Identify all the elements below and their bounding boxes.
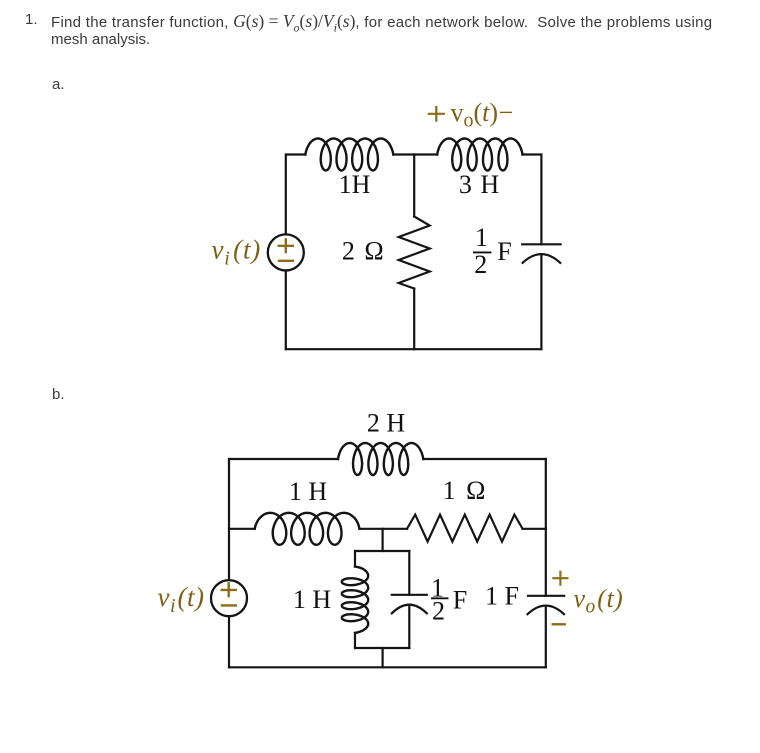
capacitor C3 1F top plate <box>528 595 564 597</box>
source V1 plus sign <box>279 240 293 253</box>
wire: circuit b bottom rail <box>229 666 546 668</box>
wire: circuit a right branch lower (C1 to bottom rail) <box>540 254 542 349</box>
resistor R1 2-ohm zigzag <box>399 217 430 289</box>
wire: parallel block top bar <box>355 550 409 552</box>
wire: circuit b middle rail between L4 and R2 (junction to block) <box>360 528 408 530</box>
svg-text:2 Ω: 2 Ω <box>342 236 385 265</box>
wire: circuit b left wire lower (source bottom to bottom rail) <box>228 618 230 668</box>
label 1/2 F for C2 (fraction) <box>431 573 467 625</box>
label minus polarity of v_o(t) <box>553 623 565 625</box>
svg-text:1 F: 1 F <box>485 582 519 611</box>
wire: circuit a bottom rail <box>286 348 542 350</box>
wire: circuit b left wire (top rail to source top) <box>228 459 230 580</box>
svg-text:1 H: 1 H <box>293 585 332 614</box>
svg-text:2: 2 <box>432 596 445 625</box>
wire: circuit b right wire (top rail through middle rail to C3) <box>545 459 547 596</box>
inductor L5 1H vertical coil <box>342 567 368 633</box>
svg-text:vo(t): vo(t) <box>574 584 624 618</box>
svg-text:vi(t): vi(t) <box>212 235 262 270</box>
svg-text:3 H: 3 H <box>459 170 500 199</box>
source V1 minus sign <box>279 260 293 262</box>
capacitor C2 1/2F top plate <box>392 594 427 596</box>
wire: circuit a top rail right corner down to C1 <box>523 155 542 245</box>
wire: circuit b top rail left of 2H <box>229 458 338 460</box>
wire: parallel block bottom bar <box>355 647 409 649</box>
svg-text:F: F <box>453 585 467 614</box>
wire: circuit a middle branch upper (top rail to R1) <box>413 155 415 217</box>
problem statement line 1 <box>25 11 38 28</box>
inductor L3 2H coil <box>338 443 423 475</box>
wire: block right branch upper <box>408 551 410 595</box>
wire: junction stub from middle rail down to parallel block <box>382 529 384 551</box>
wire: circuit a middle branch lower (R1 to bottom rail) <box>413 289 415 350</box>
svg-text:1H: 1H <box>339 170 371 199</box>
source V2 circle <box>211 580 247 616</box>
wire: circuit b right wire lower (C3 to bottom rail) <box>545 606 547 668</box>
label + v_o(t) - output voltage circuit a plus sign <box>429 107 444 121</box>
wire: circuit a left branch lower (source bottom to bottom rail) <box>285 271 287 349</box>
inductor L2 3H coil <box>437 139 522 171</box>
source V1 circle <box>268 234 304 270</box>
svg-text:vo(t)−: vo(t)− <box>451 98 514 132</box>
wire: junction stub from block down to bottom rail <box>382 648 384 667</box>
label b. <box>52 386 65 403</box>
resistor R2 1-ohm zigzag <box>407 515 523 542</box>
wire: block left branch upper <box>354 551 356 567</box>
label 1/2 F for C1 (fraction) <box>474 223 512 279</box>
svg-text:1 H: 1 H <box>289 477 328 506</box>
svg-text:2: 2 <box>474 250 487 279</box>
capacitor C1 curved plate <box>523 254 561 263</box>
svg-text:1 Ω: 1 Ω <box>443 476 488 505</box>
label a. <box>52 76 65 93</box>
wire: circuit b top rail right of 2H to right wire top <box>423 458 546 460</box>
wire: block right branch lower (C2 to block bottom bar) <box>408 605 410 648</box>
svg-text:vi(t): vi(t) <box>158 582 205 617</box>
wire: circuit b middle rail right of R2 to right wire <box>523 528 546 530</box>
capacitor C3 1F curved plate <box>528 606 565 615</box>
wire: circuit a left branch (source top to top rail to L1) <box>286 155 306 234</box>
wire: block left branch lower <box>354 633 356 648</box>
problem statement line 2 <box>51 31 150 48</box>
inductor L4 1H coil (middle rail) <box>255 513 360 545</box>
wire: circuit a top rail between L1 and L2 (node at middle branch) <box>393 153 437 155</box>
label plus polarity of v_o(t) <box>553 572 567 585</box>
svg-text:2 H: 2 H <box>367 409 406 438</box>
capacitor C1 top plate <box>522 243 560 245</box>
capacitor C2 1/2F curved plate <box>392 605 427 614</box>
svg-text:F: F <box>497 237 511 266</box>
source V2 plus sign <box>222 583 236 596</box>
source V2 minus sign <box>222 604 236 606</box>
inductor L1 1H coil <box>305 139 393 171</box>
wire: circuit b middle rail left segment <box>229 528 255 530</box>
svg-text:1: 1 <box>475 223 488 252</box>
